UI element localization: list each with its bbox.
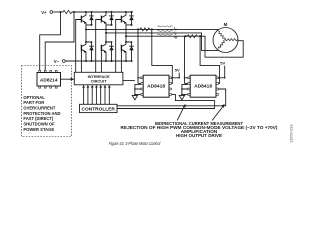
transistor Q2L (bottom IGBT leg 2) [101, 44, 107, 62]
svg-text:AD8418: AD8418 [194, 84, 212, 90]
node crossing leg2 U [105, 29, 107, 31]
ground U2 [179, 84, 187, 99]
svg-text:11059-033: 11059-033 [289, 124, 294, 142]
svg-text:AD8214: AD8214 [40, 77, 58, 83]
wire ripple U [157, 26, 172, 27]
wire U1 output to controller [117, 94, 215, 108]
wire phase V [106, 33, 219, 51]
wire shunt tap A to U2 [185, 36, 188, 83]
svg-text:V+: V+ [41, 10, 47, 15]
block controller [80, 104, 118, 112]
op-amp U1 AD8418 [141, 75, 171, 97]
wire tap to AD8214 pin2 [45, 12, 74, 71]
wire gate Q1H to interface [76, 20, 82, 73]
svg-text:OPTIONAL: OPTIONAL [23, 95, 45, 100]
wire controller signal 5 [99, 85, 102, 105]
leader arrow to U1 [177, 104, 185, 121]
wire V+ feed [53, 11, 63, 13]
svg-text:PART FOR: PART FOR [23, 100, 44, 105]
resistor R-shunt V+ [63, 10, 72, 13]
wire phase U [86, 28, 218, 30]
svg-text:M: M [224, 22, 228, 27]
power 5V U1 [172, 68, 180, 79]
svg-text:5V: 5V [220, 61, 225, 66]
diode D3L (bottom freewheel leg 3) [126, 41, 134, 62]
svg-text:AD8418: AD8418 [147, 84, 165, 90]
dashed box optional section [22, 66, 72, 137]
wire shunt tap A to U1 [138, 29, 141, 83]
svg-text:HIGH OUTPUT DRIVE: HIGH OUTPUT DRIVE [176, 133, 223, 139]
svg-text:V–: V– [54, 59, 60, 64]
svg-text:FAST (DIRECT): FAST (DIRECT) [23, 116, 54, 121]
wire leg 1 midpoint [85, 25, 87, 44]
node W-shunt left [184, 35, 186, 37]
wire gate Q3H to interface [116, 20, 122, 73]
transistor Q1L (bottom IGBT leg 1) [81, 44, 87, 62]
op-amp U2 AD8418 [188, 75, 218, 97]
wire gate Q3L to interface [120, 51, 122, 72]
motor M [213, 22, 238, 52]
wire controller signal 3 [91, 85, 94, 105]
op-amp U4 AD8214 [37, 70, 61, 88]
svg-text:POWER STAGE: POWER STAGE [23, 127, 54, 132]
wire controller signal 4 [95, 85, 98, 105]
wire leg 3 midpoint [125, 25, 127, 44]
wire V- rail [65, 60, 131, 62]
V- terminal [54, 59, 65, 64]
transistor Q2H (top IGBT leg 2) [101, 11, 111, 25]
wire AD8214 output arrow [61, 78, 75, 81]
wire gate Q2L to interface [100, 51, 102, 72]
svg-text:PROTECTION AND: PROTECTION AND [23, 111, 60, 116]
node crossing leg3 U [125, 29, 127, 31]
node W-shunt right [199, 35, 201, 37]
wire phase W [126, 36, 243, 57]
power 5V U2 [219, 61, 226, 79]
wire shunt tap B to U2 [200, 36, 219, 83]
wire gate Q1L to interface [80, 51, 82, 72]
wire ripple V [157, 30, 172, 31]
resistor R-shunt U [140, 28, 150, 31]
node shunt-right [73, 11, 75, 13]
wire ripple W [157, 34, 172, 35]
wire controller signal 1 [82, 85, 85, 105]
svg-text:CIRCUIT: CIRCUIT [91, 78, 107, 83]
transistor Q3L (bottom IGBT leg 3) [121, 44, 127, 62]
ground U1 [132, 84, 140, 99]
wire tap to AD8214 pin1 [40, 12, 61, 71]
wire controller signal 2 [87, 85, 90, 105]
V+ terminal [41, 10, 52, 15]
wire gate Q2H to interface [96, 20, 102, 73]
svg-text:OVERCURRENT: OVERCURRENT [23, 106, 55, 111]
wire V+ rail [72, 11, 133, 13]
wire leg 2 midpoint [105, 25, 107, 44]
wire U2 output to controller [117, 89, 226, 106]
transistor Q3H (top IGBT leg 3) [121, 11, 131, 25]
diode D2L (bottom freewheel leg 2) [106, 41, 114, 62]
wire controller signal 6 [104, 85, 107, 105]
wire shunt tap B to U1 [152, 29, 173, 83]
leader arrow to U2 [212, 104, 224, 121]
node shunt-left [59, 11, 61, 13]
svg-text:5V: 5V [175, 68, 180, 73]
diode D1H (top freewheel leg 1) [89, 11, 94, 26]
diode D3H (top freewheel leg 3) [129, 11, 134, 26]
resistor R-shunt W [187, 35, 197, 38]
svg-text:SHUTDOWN OF: SHUTDOWN OF [23, 122, 55, 127]
transistor Q1H (top IGBT leg 1) [81, 11, 91, 25]
node U-shunt right [151, 28, 153, 30]
wire interface to ground bus [123, 80, 135, 82]
node U-shunt left [137, 28, 139, 30]
note features text [121, 121, 278, 139]
block interface circuit [74, 72, 123, 85]
diode D2H (top freewheel leg 2) [109, 11, 114, 26]
svg-text:Figure 33. 3-Phase Motor Contr: Figure 33. 3-Phase Motor Control [109, 141, 161, 146]
svg-text:CONTROLLER: CONTROLLER [82, 106, 116, 112]
note optional text [23, 95, 60, 132]
wire controller signal 7 [108, 85, 111, 105]
diode D1L (bottom freewheel leg 1) [86, 41, 94, 62]
